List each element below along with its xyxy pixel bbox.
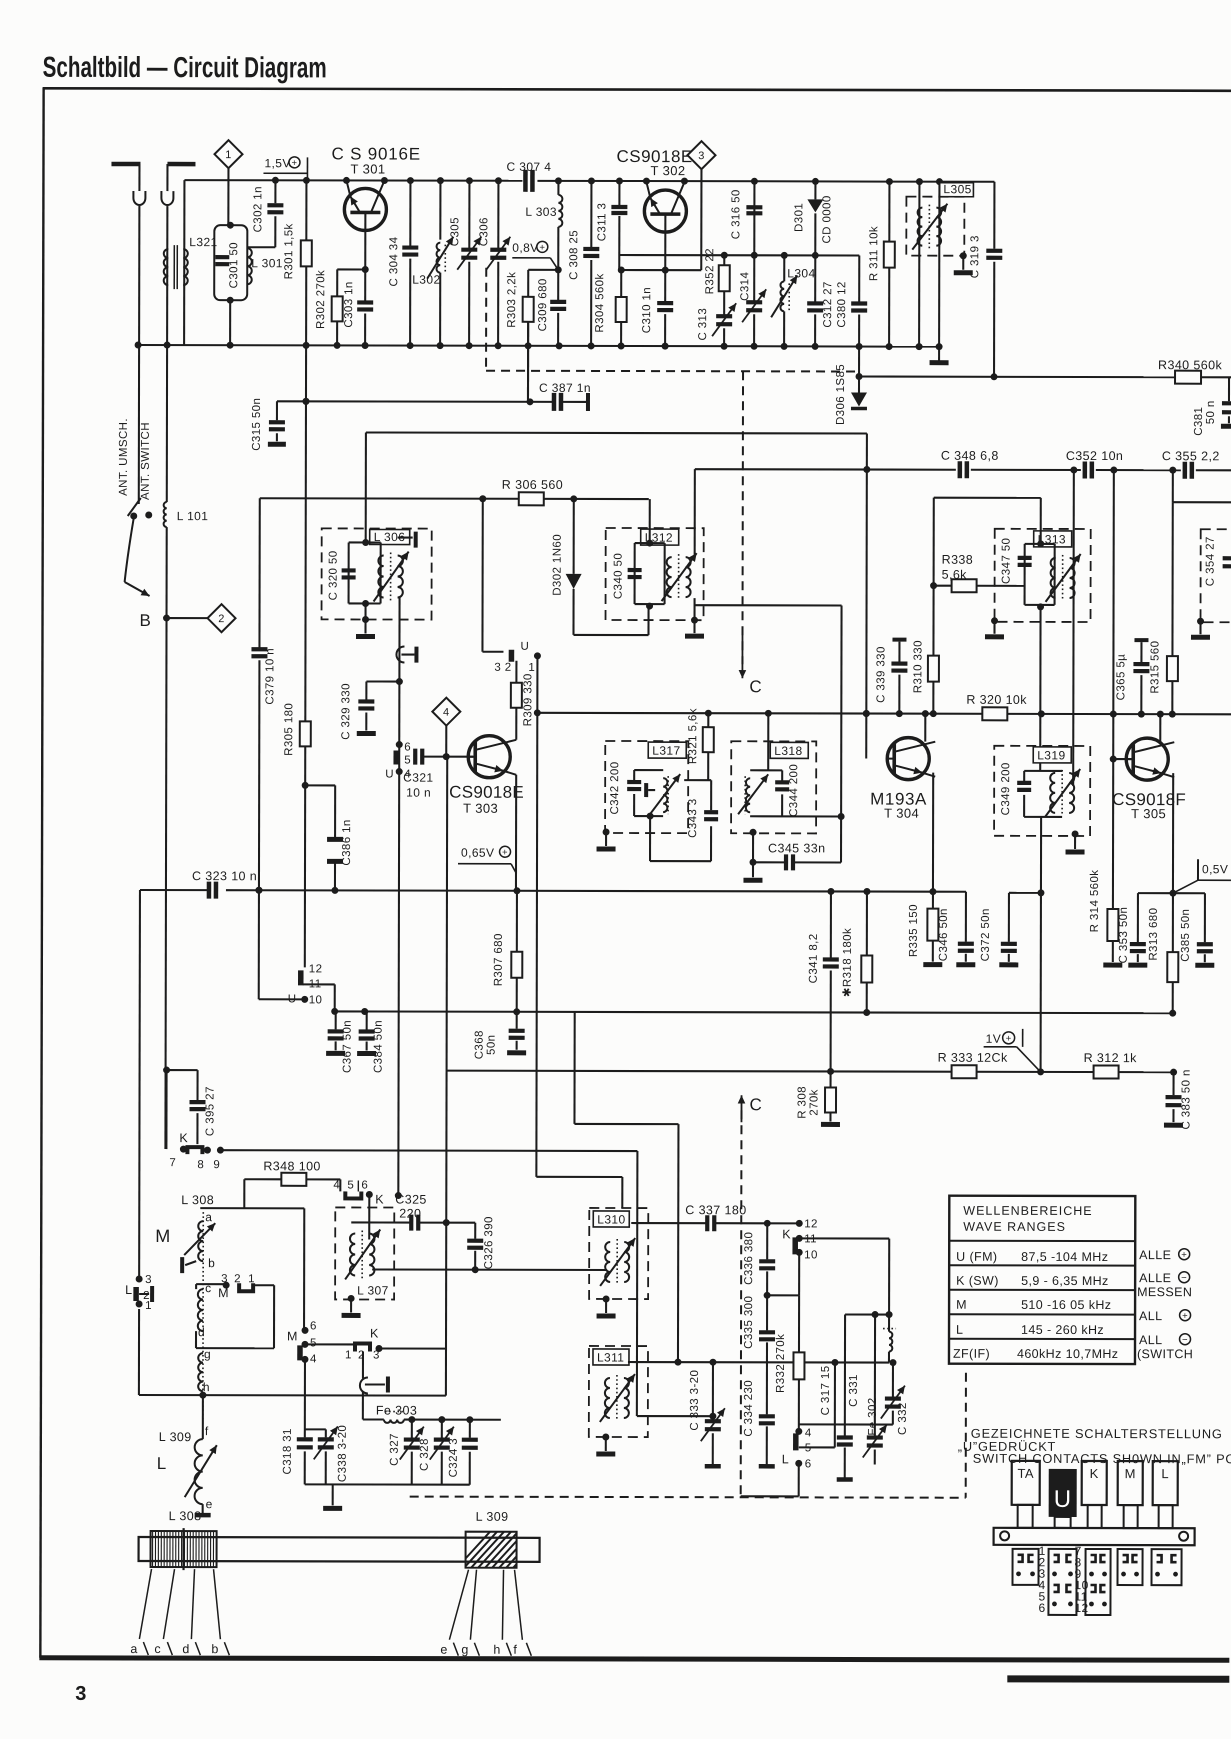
svg-text:L311: L311 [597, 1350, 624, 1364]
svg-text:K: K [1090, 1466, 1099, 1481]
svg-text:R348 100: R348 100 [263, 1159, 320, 1173]
svg-text:3: 3 [75, 1683, 87, 1705]
svg-text:a: a [130, 1642, 137, 1656]
svg-text:L 308: L 308 [181, 1193, 214, 1207]
svg-text:C 307 4: C 307 4 [506, 160, 551, 174]
svg-text:C380 12: C380 12 [836, 281, 848, 327]
svg-text:M: M [155, 1226, 170, 1246]
svg-text:R313 680: R313 680 [1148, 908, 1160, 961]
svg-text:C311 3: C311 3 [596, 203, 608, 242]
svg-text:C386 1n: C386 1n [341, 819, 353, 865]
svg-text:3 2: 3 2 [494, 662, 511, 674]
svg-text:R305 180: R305 180 [283, 703, 295, 756]
svg-text:C367 50n: C367 50n [342, 1020, 354, 1073]
svg-text:Fe 302: Fe 302 [867, 1397, 879, 1435]
svg-text:7: 7 [169, 1157, 176, 1169]
svg-text:+: + [1182, 1311, 1188, 1322]
svg-text:ALL: ALL [1139, 1309, 1162, 1323]
svg-text:WAVE RANGES: WAVE RANGES [963, 1220, 1066, 1234]
svg-text:L305: L305 [943, 182, 971, 196]
svg-text:R340 560k: R340 560k [1158, 358, 1222, 372]
svg-text:L302: L302 [412, 273, 440, 287]
svg-text:L 307: L 307 [357, 1283, 389, 1297]
svg-text:−: − [1182, 1335, 1188, 1346]
svg-text:1: 1 [528, 662, 535, 674]
svg-text:T 303: T 303 [463, 801, 498, 816]
svg-text:ANT. SWITCH: ANT. SWITCH [140, 422, 152, 500]
svg-text:12: 12 [1074, 1601, 1088, 1615]
svg-text:c: c [205, 1281, 211, 1295]
svg-text:C306: C306 [478, 217, 490, 246]
svg-text:ANT. UMSCH.: ANT. UMSCH. [118, 418, 130, 496]
svg-text:T 304: T 304 [884, 806, 919, 821]
svg-text:b: b [208, 1256, 215, 1270]
svg-text:R309 330: R309 330 [522, 673, 534, 726]
svg-text:✱R318 180k: ✱R318 180k [842, 928, 854, 997]
svg-text:C335 300: C335 300 [743, 1296, 755, 1349]
svg-text:L 303: L 303 [525, 205, 557, 219]
svg-text:R 320 10k: R 320 10k [966, 693, 1027, 707]
svg-text:C 387 1n: C 387 1n [539, 381, 591, 395]
svg-text:L319: L319 [1037, 748, 1065, 762]
svg-text:R310 330: R310 330 [912, 640, 924, 693]
svg-text:C368: C368 [474, 1030, 486, 1059]
svg-text:3: 3 [698, 150, 705, 162]
svg-text:L 308: L 308 [169, 1509, 202, 1523]
svg-text:L 309: L 309 [159, 1430, 192, 1444]
svg-text:L: L [1161, 1466, 1169, 1481]
svg-text:MESSEN: MESSEN [1137, 1285, 1192, 1299]
svg-text:C372 50n: C372 50n [980, 908, 992, 961]
svg-text:C324 3: C324 3 [448, 1438, 460, 1478]
svg-text:R352 22: R352 22 [704, 248, 716, 294]
svg-text:L: L [125, 1283, 132, 1297]
svg-text:R301 1,5k: R301 1,5k [283, 223, 295, 279]
svg-text:C: C [749, 1095, 762, 1114]
svg-text:+: + [1006, 1033, 1012, 1044]
svg-text:C 348 6,8: C 348 6,8 [941, 449, 999, 463]
svg-text:270k: 270k [808, 1089, 820, 1116]
svg-text:510 -16 05 kHz: 510 -16 05 kHz [1021, 1298, 1111, 1312]
svg-text:C303 1n: C303 1n [343, 281, 355, 327]
svg-text:L304: L304 [787, 266, 815, 280]
svg-text:C 331: C 331 [848, 1374, 860, 1407]
svg-text:C338 3-20: C338 3-20 [337, 1425, 349, 1482]
svg-text:U: U [520, 641, 529, 653]
svg-text:K (SW): K (SW) [956, 1274, 999, 1288]
svg-text:C352 10n: C352 10n [1066, 449, 1123, 463]
svg-text:C 332: C 332 [897, 1402, 909, 1435]
svg-text:9: 9 [213, 1159, 220, 1171]
svg-text:C340 50: C340 50 [613, 553, 625, 599]
svg-text:−: − [1181, 1273, 1187, 1284]
svg-text:D302 1N60: D302 1N60 [552, 534, 564, 596]
svg-text:C: C [749, 677, 762, 696]
svg-text:C318 31: C318 31 [282, 1428, 294, 1474]
svg-text:ALLE: ALLE [1139, 1248, 1171, 1262]
svg-text:K: K [375, 1192, 384, 1206]
svg-text:C344 200: C344 200 [788, 764, 800, 817]
svg-text:C312 27: C312 27 [822, 281, 834, 327]
svg-text:R 312 1k: R 312 1k [1084, 1051, 1138, 1065]
svg-text:d: d [182, 1642, 189, 1656]
svg-text:T 301: T 301 [350, 161, 385, 176]
svg-text:12: 12 [804, 1218, 818, 1230]
svg-text:C315 50n: C315 50n [251, 398, 263, 451]
svg-text:C 339 330: C 339 330 [875, 646, 887, 703]
svg-text:145 - 260 kHz: 145 - 260 kHz [1021, 1323, 1104, 1337]
svg-text:10: 10 [804, 1249, 818, 1261]
svg-text:C 334 230: C 334 230 [743, 1380, 755, 1437]
svg-text:L: L [956, 1323, 963, 1337]
svg-text:D306 1S85: D306 1S85 [835, 364, 847, 425]
svg-text:C346 50n: C346 50n [938, 908, 950, 961]
svg-text:CS9018E: CS9018E [449, 783, 524, 802]
svg-text:g: g [461, 1643, 468, 1657]
svg-text:R307 680: R307 680 [493, 933, 505, 986]
svg-text:C 333 3-20: C 333 3-20 [689, 1370, 701, 1431]
svg-text:b: b [211, 1642, 218, 1656]
svg-text:1: 1 [345, 1349, 352, 1361]
svg-text:T 302: T 302 [650, 163, 685, 178]
svg-text:4: 4 [310, 1353, 317, 1365]
svg-text:R 308: R 308 [796, 1086, 808, 1119]
svg-text:C365 5µ: C365 5µ [1115, 654, 1127, 701]
svg-text:C310 1n: C310 1n [641, 287, 653, 333]
svg-text:g: g [204, 1347, 211, 1361]
svg-text:3: 3 [145, 1274, 152, 1286]
svg-text:f: f [205, 1424, 209, 1438]
svg-text:U (FM): U (FM) [956, 1250, 997, 1264]
svg-text:10 n: 10 n [406, 786, 431, 800]
svg-text:CD 0000: CD 0000 [821, 195, 833, 243]
svg-text:C 316 50: C 316 50 [730, 189, 742, 239]
svg-text:R332 270k: R332 270k [775, 1334, 787, 1393]
svg-text:10: 10 [309, 994, 323, 1006]
svg-text:+: + [502, 847, 508, 858]
svg-text:K: K [179, 1131, 188, 1145]
svg-text:R303 2,2k: R303 2,2k [506, 272, 518, 328]
svg-text:M: M [1125, 1466, 1136, 1481]
svg-text:ZF(IF): ZF(IF) [953, 1347, 990, 1361]
svg-text:C 354 27: C 354 27 [1205, 536, 1217, 586]
svg-text:+: + [291, 158, 297, 169]
svg-text:4: 4 [805, 1427, 812, 1439]
svg-text:C 313: C 313 [697, 308, 709, 341]
svg-text:0,65V: 0,65V [461, 846, 494, 860]
svg-text:12: 12 [309, 963, 323, 975]
svg-text:R338: R338 [942, 553, 974, 567]
svg-text:4: 4 [443, 707, 450, 719]
svg-text:L: L [782, 1452, 789, 1466]
svg-text:6: 6 [361, 1179, 368, 1191]
svg-text:R 333 12Ck: R 333 12Ck [938, 1051, 1008, 1065]
svg-text:C 395 27: C 395 27 [204, 1086, 216, 1136]
svg-text:C 323 10 n: C 323 10 n [192, 869, 257, 883]
svg-text:U: U [385, 769, 394, 781]
svg-text:(SWITCH: (SWITCH [1137, 1347, 1193, 1361]
svg-text:50 n: 50 n [1181, 1069, 1193, 1093]
svg-text:50 n: 50 n [1205, 400, 1217, 424]
svg-text:C381: C381 [1193, 407, 1205, 436]
svg-text:C 383: C 383 [1180, 1097, 1192, 1130]
svg-text:1,5V: 1,5V [264, 156, 290, 170]
svg-text:C314: C314 [739, 272, 751, 301]
svg-text:C 320 50: C 320 50 [328, 550, 340, 600]
svg-text:C305: C305 [449, 217, 461, 246]
svg-text:Schaltbild — Circuit Diagram: Schaltbild — Circuit Diagram [43, 52, 327, 85]
svg-text:C326 390: C326 390 [483, 1216, 495, 1269]
svg-text:h: h [493, 1643, 500, 1657]
svg-text:+: + [1181, 1250, 1187, 1261]
svg-text:C 304 34: C 304 34 [388, 236, 400, 286]
svg-text:220: 220 [399, 1207, 421, 1221]
svg-text:R302 270k: R302 270k [315, 270, 327, 329]
svg-text:6: 6 [404, 742, 411, 754]
svg-text:8: 8 [197, 1159, 204, 1171]
svg-text:f: f [513, 1643, 517, 1657]
svg-text:L310: L310 [597, 1212, 625, 1226]
svg-text:C302 1n: C302 1n [252, 186, 264, 232]
svg-text:K: K [782, 1227, 791, 1241]
svg-text:B: B [140, 611, 152, 630]
svg-text:a: a [205, 1210, 212, 1224]
svg-text:C345 33n: C345 33n [768, 841, 825, 855]
svg-text:6: 6 [310, 1320, 317, 1332]
svg-text:0,5V: 0,5V [1202, 862, 1228, 876]
svg-text:1: 1 [225, 149, 232, 161]
svg-text:WELLENBEREICHE: WELLENBEREICHE [963, 1204, 1092, 1218]
svg-text:C 337 180: C 337 180 [685, 1203, 746, 1217]
svg-text:K: K [370, 1326, 379, 1340]
svg-text:R 311 10k: R 311 10k [868, 226, 880, 281]
svg-text:2: 2 [218, 613, 225, 625]
svg-text:0,8V: 0,8V [512, 241, 538, 255]
svg-text:C347 50: C347 50 [1001, 538, 1013, 584]
svg-text:1V: 1V [986, 1032, 1002, 1046]
svg-text:C301 50: C301 50 [228, 242, 240, 288]
svg-text:TA: TA [1017, 1466, 1033, 1481]
svg-text:C341 8,2: C341 8,2 [808, 933, 820, 983]
svg-text:L 101: L 101 [177, 509, 209, 523]
svg-text:5,9 - 6,35 MHz: 5,9 - 6,35 MHz [1021, 1274, 1109, 1288]
svg-text:U: U [1054, 1486, 1072, 1513]
svg-text:d: d [198, 1325, 205, 1339]
svg-text:R315 560: R315 560 [1149, 641, 1161, 694]
svg-text:C 317 15: C 317 15 [820, 1365, 832, 1415]
svg-text:D301: D301 [793, 203, 805, 232]
svg-text:5: 5 [404, 755, 411, 767]
svg-text:C 328: C 328 [419, 1438, 431, 1471]
svg-text:R 314 560k: R 314 560k [1089, 870, 1101, 933]
svg-text:L317: L317 [652, 744, 680, 758]
svg-text:R304 560k: R304 560k [594, 273, 606, 332]
svg-text:C 327: C 327 [389, 1433, 401, 1466]
svg-text:50n: 50n [486, 1035, 498, 1055]
svg-text:C342 200: C342 200 [609, 761, 621, 814]
svg-text:460kHz 10,7MHz: 460kHz 10,7MHz [1017, 1347, 1119, 1361]
svg-text:Fe 303: Fe 303 [376, 1404, 417, 1418]
svg-text:R 306 560: R 306 560 [502, 478, 563, 492]
svg-text:6: 6 [805, 1458, 812, 1470]
svg-text:L: L [157, 1454, 167, 1473]
svg-text:C384 50n: C384 50n [373, 1020, 385, 1073]
svg-text:C 319 3: C 319 3 [969, 235, 981, 278]
svg-text:5: 5 [347, 1179, 354, 1191]
svg-text:C343 3: C343 3 [687, 798, 699, 838]
svg-text:C325: C325 [395, 1193, 427, 1207]
svg-text:c: c [154, 1642, 161, 1656]
svg-text:5,6k: 5,6k [942, 568, 968, 582]
svg-text:ALL: ALL [1139, 1333, 1162, 1347]
svg-text:C385 50n: C385 50n [1180, 909, 1192, 962]
svg-text:C349 200: C349 200 [1000, 762, 1012, 815]
svg-text:e: e [206, 1497, 213, 1511]
svg-text:L 301: L 301 [251, 256, 283, 270]
svg-text:1: 1 [145, 1300, 152, 1312]
svg-text:87,5 -104 MHz: 87,5 -104 MHz [1021, 1250, 1108, 1264]
svg-text:L318: L318 [774, 744, 802, 758]
svg-text:R335 150: R335 150 [908, 904, 920, 957]
svg-text:M: M [287, 1329, 298, 1343]
svg-text:C 353 50n: C 353 50n [1118, 907, 1130, 964]
svg-text:M: M [956, 1298, 967, 1312]
svg-text:C 308 25: C 308 25 [568, 230, 580, 280]
svg-text:ALLE: ALLE [1139, 1271, 1171, 1285]
svg-text:C 329 330: C 329 330 [340, 683, 352, 740]
svg-text:C 355 2,2: C 355 2,2 [1162, 449, 1220, 463]
svg-text:C321: C321 [403, 771, 433, 785]
svg-text:C309 680: C309 680 [537, 278, 549, 331]
svg-text:L 309: L 309 [476, 1510, 509, 1524]
svg-text:4: 4 [333, 1179, 340, 1191]
svg-text:C379 10 n: C379 10 n [264, 648, 276, 705]
svg-text:T 305: T 305 [1131, 806, 1166, 821]
svg-text:6: 6 [1038, 1601, 1045, 1615]
svg-text:e: e [440, 1643, 447, 1657]
svg-text:C336 380: C336 380 [743, 1232, 755, 1285]
svg-text:+: + [539, 242, 545, 253]
